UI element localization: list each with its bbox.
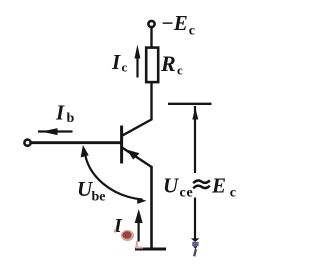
resistor Rc — [146, 48, 158, 83]
svg-text:c: c — [122, 60, 128, 75]
svg-text:R: R — [160, 51, 176, 76]
blue pen retrace mark at arrow bottom — [192, 242, 198, 256]
svg-text:c: c — [189, 24, 195, 39]
transistor Q1 base bar — [120, 126, 123, 164]
label Rc — [160, 51, 183, 78]
svg-text:c: c — [230, 186, 236, 201]
label Uce ≈ Ec — [163, 174, 236, 201]
label Ie (subscript shows red stamp mark) — [113, 215, 134, 241]
svg-text:be: be — [92, 190, 106, 205]
label -Ec (supply voltage) — [161, 11, 195, 39]
terminal (base input) — [24, 140, 30, 146]
arrow Ie (emitter current) — [135, 209, 143, 248]
transistor Q1 emitter lead with PNP arrow — [122, 148, 152, 168]
label Ib — [55, 101, 75, 127]
Ube measuring arc (base-emitter voltage) — [81, 145, 147, 204]
svg-text:I: I — [111, 50, 121, 74]
Uce measuring double arrow — [191, 106, 200, 242]
emitter wire down — [150, 166, 153, 250]
svg-text:−E: −E — [161, 11, 188, 35]
base wire — [30, 141, 121, 144]
terminal (top supply) — [148, 21, 154, 27]
svg-text:E: E — [211, 174, 226, 198]
svg-text:ce: ce — [180, 186, 194, 201]
svg-text:b: b — [67, 111, 75, 126]
transistor Q1 (PNP) collector lead — [122, 119, 152, 136]
svg-text:I: I — [55, 101, 65, 125]
arrow Ib (base current) — [38, 128, 73, 135]
bottom node wire — [135, 248, 166, 251]
wire top terminal to Rc — [150, 27, 152, 48]
wire Rc to collector — [150, 82, 152, 120]
label Ube — [77, 177, 106, 205]
svg-text:U: U — [163, 174, 180, 198]
collector reference bar (top of Uce measure) — [168, 103, 212, 105]
arrow Ic (collector current) — [135, 45, 141, 78]
svg-text:c: c — [177, 63, 183, 78]
label Ic — [111, 50, 128, 75]
